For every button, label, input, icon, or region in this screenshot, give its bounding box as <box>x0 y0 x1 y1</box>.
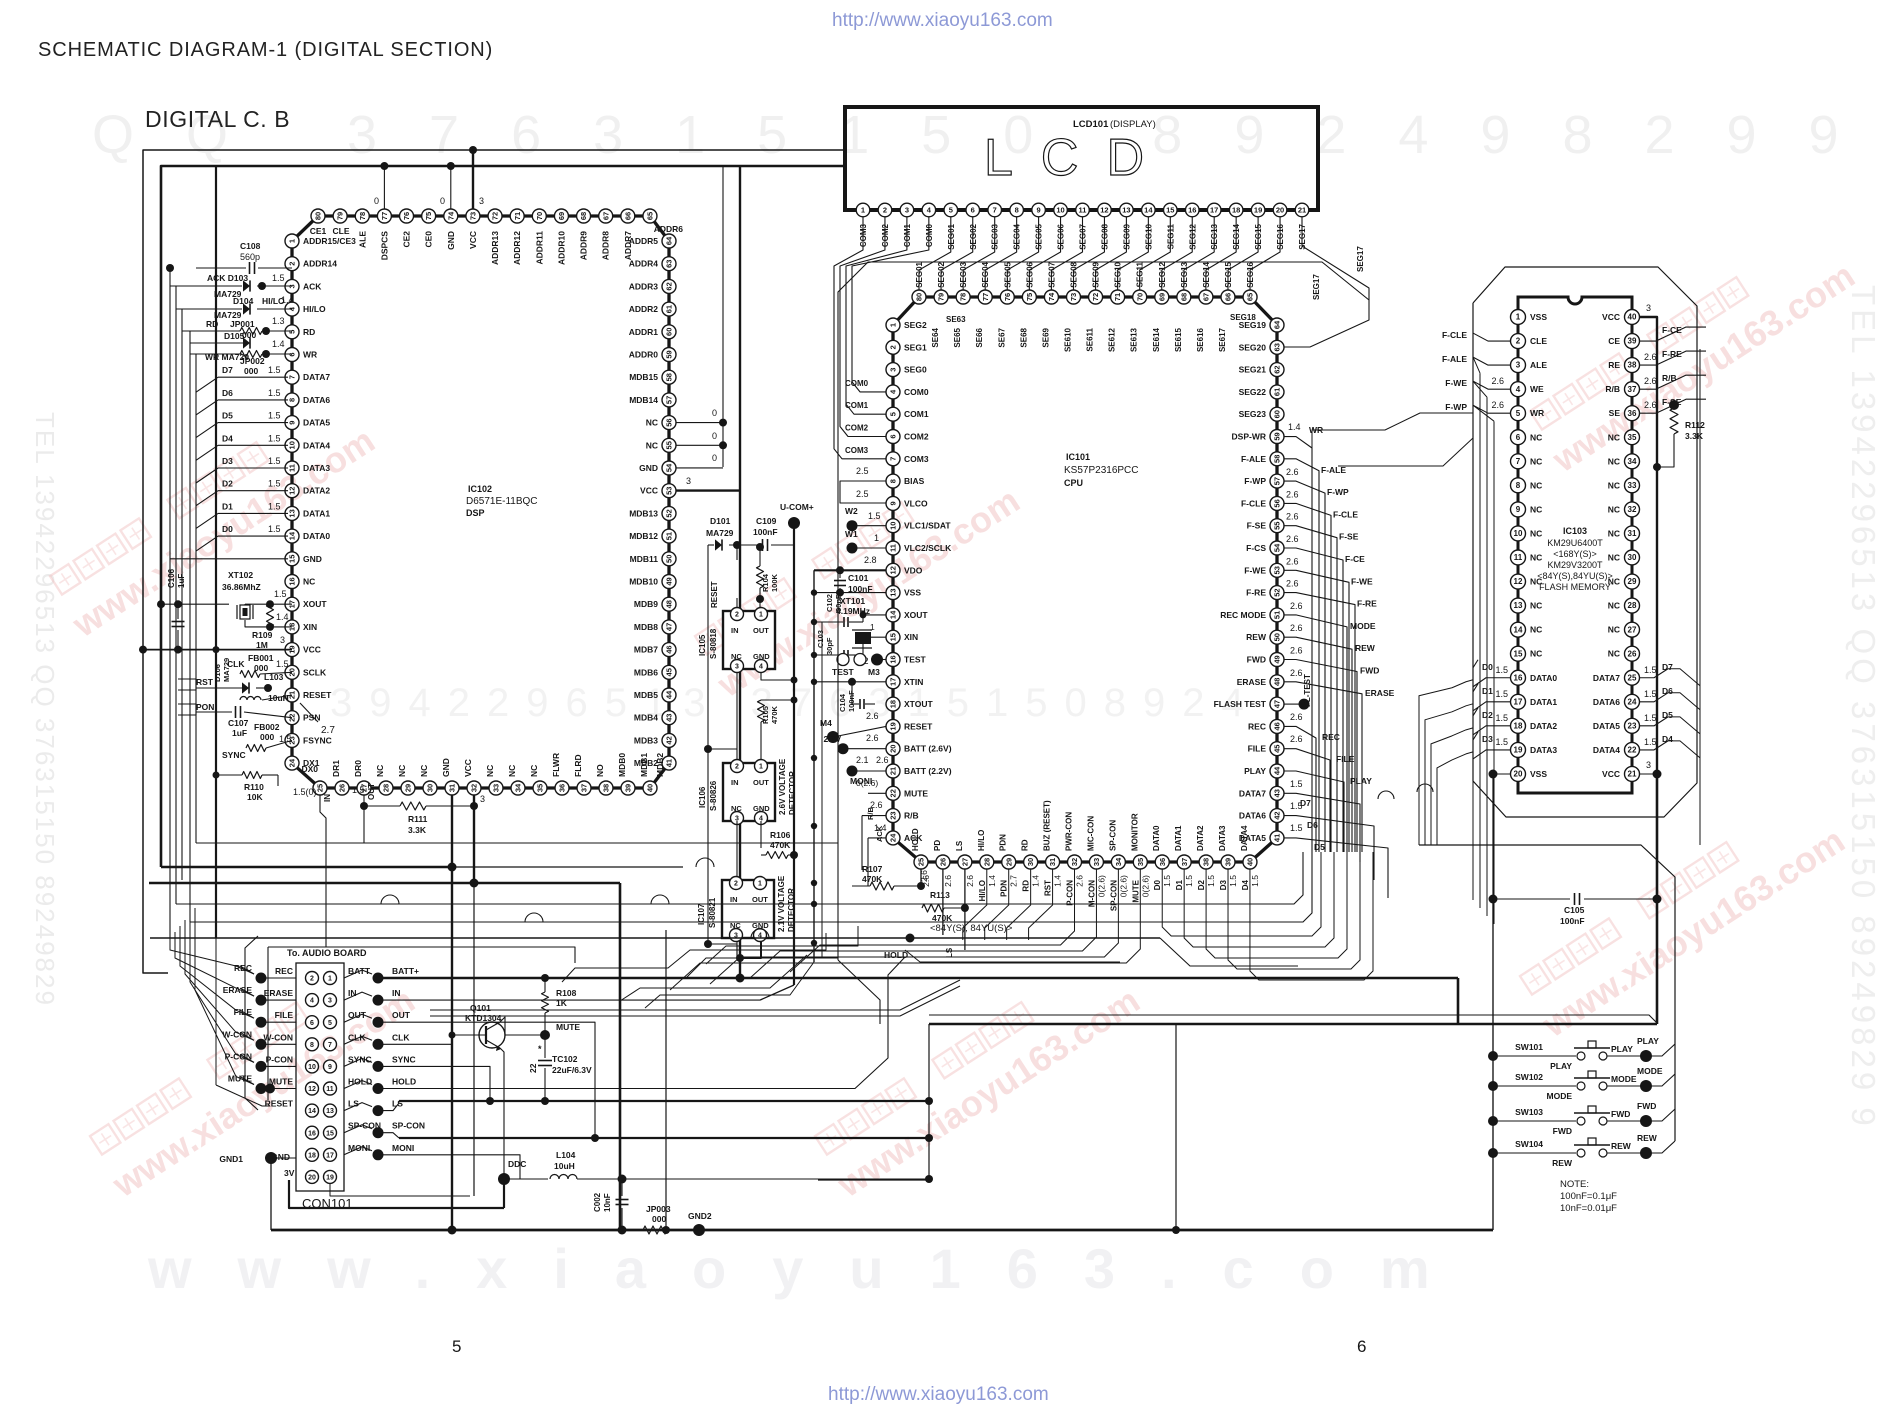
svg-text:TEST: TEST <box>904 655 927 665</box>
capacitor C101 <box>834 570 873 600</box>
svg-text:SE67: SE67 <box>997 327 1006 347</box>
svg-text:30: 30 <box>1628 553 1637 562</box>
svg-text:80: 80 <box>314 212 323 220</box>
svg-text:MDB6: MDB6 <box>634 667 658 677</box>
svg-text:46: 46 <box>665 645 674 653</box>
svg-text:1.5: 1.5 <box>1162 875 1172 887</box>
svg-text:SEG12: SEG12 <box>1158 261 1167 287</box>
svg-text:MDB3: MDB3 <box>634 735 658 745</box>
svg-text:20: 20 <box>1514 770 1523 779</box>
svg-text:2.6V VOLTAGE: 2.6V VOLTAGE <box>778 758 787 815</box>
svg-text:DR0: DR0 <box>353 760 363 777</box>
wire MUTE thick rail <box>399 1100 929 1102</box>
svg-text:16: 16 <box>308 1130 316 1137</box>
watermark gray vertical text left edge <box>30 412 60 1007</box>
svg-text:24: 24 <box>889 833 898 842</box>
label SYNC <box>222 750 246 760</box>
capacitor C108 <box>196 241 292 274</box>
svg-text:25: 25 <box>316 784 325 792</box>
svg-text:PLAY: PLAY <box>1637 1036 1659 1046</box>
svg-text:SEG2: SEG2 <box>904 320 927 330</box>
svg-text:11: 11 <box>326 1086 334 1093</box>
svg-text:72: 72 <box>1091 293 1100 301</box>
svg-text:BATT+: BATT+ <box>392 966 419 976</box>
wire left board thick vertical <box>215 167 217 938</box>
svg-text:C107: C107 <box>228 718 249 728</box>
svg-text:SEG16: SEG16 <box>1246 261 1255 287</box>
svg-text:2.8: 2.8 <box>864 555 877 565</box>
node junctions on ground rail <box>448 1226 1181 1235</box>
label LS rotated <box>945 947 954 958</box>
svg-text:68: 68 <box>579 212 588 220</box>
svg-text:74: 74 <box>446 211 455 220</box>
svg-text:F-WP: F-WP <box>1244 476 1266 486</box>
wire DATA6 net <box>1284 801 1374 880</box>
svg-text:2.6: 2.6 <box>876 755 889 765</box>
svg-text:D4: D4 <box>222 433 233 443</box>
svg-text:WE: WE <box>1530 384 1544 394</box>
wire vertical x1176 <box>1175 1024 1177 1230</box>
svg-text:32: 32 <box>1628 505 1637 514</box>
ferrite bead FB002 <box>246 722 292 752</box>
svg-text:55: 55 <box>665 441 674 449</box>
node junction R107 out <box>917 882 925 890</box>
wire F-ALE horizontal to IC103 <box>1338 438 1473 466</box>
svg-text:48: 48 <box>665 600 674 608</box>
svg-text:REC: REC <box>1322 732 1340 742</box>
svg-text:ADDR0: ADDR0 <box>629 350 659 360</box>
IC103 part label block <box>1537 526 1613 592</box>
svg-text:5: 5 <box>889 412 898 416</box>
IC102 pins 1-24 left <box>285 234 299 770</box>
svg-text:28: 28 <box>382 784 391 792</box>
IC101 bottom pin value labels <box>921 875 1260 911</box>
resistor R110 <box>216 772 278 803</box>
svg-text:3: 3 <box>686 476 691 486</box>
svg-text:20: 20 <box>308 1175 316 1182</box>
svg-text:ADDR14: ADDR14 <box>303 259 337 269</box>
svg-text:NC: NC <box>507 765 517 777</box>
svg-text:62: 62 <box>1273 365 1282 373</box>
svg-text:37: 37 <box>1180 858 1189 866</box>
wire VCC thick route to bottom <box>929 774 1657 1024</box>
svg-text:MDB11: MDB11 <box>630 554 659 564</box>
svg-text:1.5: 1.5 <box>1228 875 1238 887</box>
svg-text:33: 33 <box>1628 481 1637 490</box>
svg-text:17: 17 <box>1514 697 1523 706</box>
svg-text:1.5: 1.5 <box>268 411 281 421</box>
svg-text:www.xiaoyu163.com: www.xiaoyu163.com <box>147 1237 1476 1300</box>
svg-text:17: 17 <box>1210 206 1218 215</box>
board label DIGITAL C. B <box>145 106 290 132</box>
wire xtal ground return vertical <box>821 622 823 958</box>
svg-text:SEG02: SEG02 <box>937 261 946 287</box>
node W2 test point <box>845 506 886 531</box>
svg-text:61: 61 <box>1273 388 1282 396</box>
svg-text:KS57P2316PCC: KS57P2316PCC <box>1064 465 1139 476</box>
svg-text:CLE: CLE <box>1530 336 1547 346</box>
svg-text:100nF: 100nF <box>753 527 778 537</box>
node junction JP001 out <box>262 327 270 335</box>
svg-text:000: 000 <box>244 366 258 376</box>
svg-text:43: 43 <box>665 714 674 722</box>
crystal XT101 <box>836 596 886 655</box>
svg-text:0(2.6): 0(2.6) <box>1096 875 1106 897</box>
svg-text:http://www.xiaoyu163.com: http://www.xiaoyu163.com <box>828 1384 1049 1404</box>
svg-text:SEG18: SEG18 <box>1230 313 1256 322</box>
svg-text:PLAY: PLAY <box>1550 1061 1572 1071</box>
svg-text:NC: NC <box>1530 504 1542 514</box>
svg-text:DATA3: DATA3 <box>1530 745 1557 755</box>
wire flash feed risers to IC103 left <box>1473 333 1494 924</box>
svg-text:38: 38 <box>1628 361 1637 370</box>
node junction R106 <box>790 851 798 859</box>
svg-text:2.6V: 2.6V <box>824 734 842 744</box>
svg-text:FWD: FWD <box>1637 1101 1656 1111</box>
svg-text:1.4: 1.4 <box>276 612 289 622</box>
svg-text:16: 16 <box>1514 673 1523 682</box>
svg-text:76: 76 <box>402 212 411 220</box>
svg-text:F-SE: F-SE <box>1339 532 1359 542</box>
node junction L103 <box>264 684 272 692</box>
svg-text:GND2: GND2 <box>688 1211 712 1221</box>
svg-text:25: 25 <box>1628 673 1637 682</box>
svg-text:VCC: VCC <box>463 759 473 777</box>
svg-text:1: 1 <box>1516 313 1521 322</box>
node junction pin73 <box>469 146 477 154</box>
watermark bottom blue url <box>828 1384 1049 1404</box>
svg-text:LS: LS <box>955 840 964 851</box>
svg-text:51: 51 <box>665 532 674 540</box>
svg-text:2: 2 <box>1516 337 1521 346</box>
svg-text:MUTE: MUTE <box>1131 879 1140 902</box>
svg-text:F-WP: F-WP <box>1327 487 1349 497</box>
svg-text:17: 17 <box>889 678 898 686</box>
svg-text:2.6: 2.6 <box>1290 623 1303 633</box>
svg-text:F-WP: F-WP <box>1445 402 1467 412</box>
svg-text:D5: D5 <box>1314 842 1325 852</box>
node DDC <box>498 1159 526 1185</box>
node junction D101 out <box>733 541 741 549</box>
svg-text:35: 35 <box>1628 433 1637 442</box>
capacitor C103 30pF <box>814 630 863 660</box>
svg-text:F-WE: F-WE <box>1244 565 1266 575</box>
svg-text:3.3K: 3.3K <box>408 825 427 835</box>
svg-text:0(2.6): 0(2.6) <box>1140 875 1150 897</box>
svg-text:DETECTOR: DETECTOR <box>788 771 797 815</box>
svg-text:IC106: IC106 <box>698 786 707 808</box>
node junction R111-vcc <box>470 802 478 810</box>
svg-text:34: 34 <box>1114 857 1123 866</box>
svg-text:2: 2 <box>734 881 738 888</box>
wire flash control nets F-ALE..F-RE <box>1284 459 1377 852</box>
svg-text:C109: C109 <box>756 516 777 526</box>
wire board octagon outline around IC103 <box>1473 267 1697 817</box>
svg-text:SEG22: SEG22 <box>1239 387 1267 397</box>
svg-text:0(2.6): 0(2.6) <box>1118 875 1128 897</box>
svg-text:SEG04: SEG04 <box>981 261 990 287</box>
IC101 top inner seg labels <box>931 313 1256 352</box>
svg-text:SEG20: SEG20 <box>1239 342 1267 352</box>
svg-text:14: 14 <box>889 610 898 619</box>
CON101 pins <box>306 972 337 1184</box>
svg-text:21: 21 <box>1628 770 1637 779</box>
resistor R105 <box>758 700 780 760</box>
svg-text:1.5: 1.5 <box>279 734 292 744</box>
svg-text:33: 33 <box>492 784 501 792</box>
wire IC102 pin54 GND stub <box>676 453 723 468</box>
svg-text:DATA2: DATA2 <box>1530 721 1557 731</box>
resistor R112 <box>1657 408 1705 467</box>
svg-text:RESET: RESET <box>710 581 719 608</box>
svg-text:MDB0: MDB0 <box>617 753 627 777</box>
svg-text:F-RE: F-RE <box>1246 588 1266 598</box>
svg-text:F-WE: F-WE <box>1445 378 1467 388</box>
svg-text:1.3: 1.3 <box>272 316 285 326</box>
svg-text:SW103: SW103 <box>1515 1107 1543 1117</box>
svg-text:DATA0: DATA0 <box>303 531 330 541</box>
svg-text:DATA2: DATA2 <box>303 486 330 496</box>
svg-text:13: 13 <box>288 509 297 517</box>
wire BATT+ thick rail <box>378 977 1458 980</box>
svg-text:71: 71 <box>513 212 522 220</box>
transistor Q101 <box>452 1003 505 1051</box>
svg-text:RESET: RESET <box>303 690 332 700</box>
svg-text:70: 70 <box>1135 293 1144 301</box>
svg-text:5: 5 <box>949 206 953 215</box>
wire bottom left corner drop <box>818 1024 929 1180</box>
svg-text:27: 27 <box>960 858 969 866</box>
diode D104 <box>214 295 294 320</box>
svg-text:6: 6 <box>310 1020 314 1027</box>
svg-text:OUT: OUT <box>392 1010 411 1020</box>
svg-text:ERASE: ERASE <box>1365 688 1395 698</box>
svg-text:7: 7 <box>993 206 997 215</box>
svg-text:000: 000 <box>652 1214 666 1224</box>
svg-text:78: 78 <box>959 293 968 301</box>
wire IC103 VSS pin20 tie <box>1489 770 1511 779</box>
svg-text:1: 1 <box>328 976 332 983</box>
svg-text:2: 2 <box>735 612 739 619</box>
svg-text:67: 67 <box>1202 293 1211 301</box>
node junction OUT-mute rail <box>591 1134 599 1142</box>
svg-text:R/B: R/B <box>866 807 875 821</box>
IC102 bottom pin labels <box>301 753 665 777</box>
svg-text:1.5: 1.5 <box>268 501 281 511</box>
wire D101 feed vertical <box>708 545 737 944</box>
svg-text:IC103: IC103 <box>1563 526 1587 536</box>
svg-text:REC: REC <box>1248 721 1266 731</box>
wire fan LCD segs to IC101 <box>919 217 1280 290</box>
svg-text:VCC: VCC <box>468 231 478 249</box>
svg-text:R113: R113 <box>930 890 950 900</box>
svg-text:COM0: COM0 <box>904 387 929 397</box>
svg-text:70: 70 <box>535 212 544 220</box>
svg-text:SE: SE <box>1609 408 1621 418</box>
svg-text:GND: GND <box>639 463 658 473</box>
switch SW102 MODE <box>1488 1066 1675 1101</box>
svg-text:FSYNC: FSYNC <box>303 735 332 745</box>
node junction C105 ends <box>1489 895 1662 904</box>
watermark gray digits row top <box>92 105 1890 165</box>
svg-text:12: 12 <box>1100 206 1108 215</box>
svg-text:W2: W2 <box>845 506 858 516</box>
svg-text:NC: NC <box>529 765 539 777</box>
svg-text:14: 14 <box>288 531 297 540</box>
svg-text:75: 75 <box>1025 293 1034 301</box>
svg-text:PDN: PDN <box>1000 880 1009 897</box>
svg-text:1.5: 1.5 <box>1206 875 1216 887</box>
node junction VCC pin21 <box>1640 760 1662 779</box>
svg-text:ADDR1: ADDR1 <box>629 327 659 337</box>
watermark gray digits row middle <box>330 681 1261 725</box>
svg-text:4: 4 <box>310 998 314 1005</box>
svg-text:12: 12 <box>889 566 898 574</box>
svg-text:100nF=0.1μF: 100nF=0.1μF <box>1560 1191 1617 1202</box>
svg-text:D4: D4 <box>1662 734 1673 744</box>
svg-text:GND: GND <box>753 652 770 661</box>
diode D105 <box>190 331 250 354</box>
svg-text:1.5: 1.5 <box>1495 665 1508 675</box>
wire SEG17 from LCD pin21 <box>1291 217 1369 347</box>
svg-text:LCD: LCD <box>984 129 1172 187</box>
IC102 pins 64-41 right <box>662 234 676 770</box>
svg-text:40: 40 <box>1246 858 1255 866</box>
resistor R107 <box>852 864 921 890</box>
svg-text:13: 13 <box>889 588 898 596</box>
svg-text:1: 1 <box>874 533 879 543</box>
svg-text:6: 6 <box>889 434 898 438</box>
svg-text:NC: NC <box>1530 480 1542 490</box>
svg-text:1.5: 1.5 <box>1495 713 1508 723</box>
svg-text:16: 16 <box>889 655 898 663</box>
svg-text:NC: NC <box>1608 649 1620 659</box>
svg-text:ERASE: ERASE <box>1237 677 1267 687</box>
svg-text:SE617: SE617 <box>1218 327 1227 352</box>
IC101 pins 64-41 right <box>1270 318 1284 845</box>
svg-text:SE68: SE68 <box>1019 327 1028 347</box>
wire right rail vertical x1700 <box>1699 349 1701 845</box>
svg-text:NC: NC <box>1608 456 1620 466</box>
wire U-COM+ vertical thick <box>793 523 795 985</box>
svg-text:DATA0: DATA0 <box>1152 825 1161 851</box>
svg-text:SEG08: SEG08 <box>1069 261 1078 287</box>
svg-text:SP-CON: SP-CON <box>1109 880 1118 911</box>
svg-text:6: 6 <box>971 206 975 215</box>
svg-text:DATA3: DATA3 <box>1218 825 1227 851</box>
svg-text:COM0: COM0 <box>845 379 869 388</box>
svg-text:RESET: RESET <box>904 721 933 731</box>
wire D4-D7 exits to right rail <box>1668 669 1700 845</box>
svg-text:1.4: 1.4 <box>1053 875 1063 887</box>
svg-text:52: 52 <box>665 509 674 517</box>
svg-text:73: 73 <box>1069 293 1078 301</box>
wire 3V feed thick <box>289 1179 504 1208</box>
IC103 right pin labels <box>1593 312 1620 779</box>
svg-text:49: 49 <box>665 577 674 585</box>
svg-text:SEG13: SEG13 <box>1180 261 1189 287</box>
svg-text:DATA5: DATA5 <box>303 418 330 428</box>
svg-text:NOTE:: NOTE: <box>1560 1179 1589 1190</box>
svg-text:DATA1: DATA1 <box>1530 697 1557 707</box>
svg-text:1.5: 1.5 <box>1644 713 1657 723</box>
svg-text:37: 37 <box>1628 385 1637 394</box>
svg-text:32: 32 <box>470 784 479 792</box>
svg-text:VSS: VSS <box>1530 769 1547 779</box>
svg-text:1.5: 1.5 <box>1184 875 1194 887</box>
svg-text:1: 1 <box>889 323 898 327</box>
svg-text:IN: IN <box>730 895 738 904</box>
svg-text:SE614: SE614 <box>1152 327 1161 352</box>
svg-text:RE: RE <box>1608 360 1620 370</box>
svg-text:2: 2 <box>288 262 297 266</box>
svg-text:GND: GND <box>753 804 770 813</box>
svg-text:DATA2: DATA2 <box>1196 825 1205 851</box>
svg-text:SEG14: SEG14 <box>1202 261 1211 287</box>
svg-text:78: 78 <box>358 212 367 220</box>
svg-text:R112: R112 <box>1685 420 1705 430</box>
svg-text:SE64: SE64 <box>931 327 940 347</box>
svg-text:C103: C103 <box>816 630 825 648</box>
wire NC tie down to IC105 <box>736 598 738 608</box>
LCD101 display outline <box>845 107 1318 210</box>
wire REC net <box>1284 712 1340 852</box>
watermark gray vertical text right edge <box>1845 285 1882 1130</box>
svg-text:SEG11: SEG11 <box>1136 261 1145 287</box>
svg-text:2: 2 <box>310 976 314 983</box>
svg-text:000: 000 <box>260 732 274 742</box>
wire IC103 left control entries <box>1442 330 1510 413</box>
switch SW101 PLAY <box>1488 1036 1675 1071</box>
svg-text:XOUT: XOUT <box>303 599 327 609</box>
wire CLK net <box>378 1043 452 1045</box>
svg-text:9: 9 <box>889 501 898 505</box>
IC102 pins 80-65 top <box>311 209 657 223</box>
node BATT 2.2V junction <box>847 755 889 786</box>
svg-text:MDB1: MDB1 <box>639 753 649 777</box>
svg-text:100nF: 100nF <box>1560 916 1585 926</box>
svg-text:P-CON: P-CON <box>1066 880 1075 906</box>
wire octagon IC101 bottom-left diagonal <box>838 960 880 1024</box>
svg-text:3: 3 <box>480 794 485 804</box>
svg-text:26: 26 <box>338 784 347 792</box>
svg-text:To. AUDIO BOARD: To. AUDIO BOARD <box>287 948 367 958</box>
ferrite bead FB001 <box>227 653 292 678</box>
svg-text:65: 65 <box>1246 293 1255 301</box>
svg-text:30: 30 <box>1026 858 1035 866</box>
svg-text:60: 60 <box>1273 410 1282 418</box>
svg-text:F-RE: F-RE <box>1357 599 1377 609</box>
wire left bus vertical B <box>175 286 177 904</box>
wire IC102 pin53 VCC stub thick <box>676 166 740 978</box>
svg-text:MDB10: MDB10 <box>629 577 658 587</box>
svg-text:ALE: ALE <box>357 231 367 248</box>
label To. AUDIO BOARD <box>287 948 367 958</box>
wire left bus vertical E <box>195 354 197 843</box>
svg-text:MODE: MODE <box>1637 1066 1663 1076</box>
svg-text:13: 13 <box>326 1108 334 1115</box>
IC101 pins 1-24 left <box>886 318 900 845</box>
svg-text:51: 51 <box>1273 611 1282 619</box>
resistor R111 <box>364 802 473 835</box>
resistor R108 <box>542 978 577 1035</box>
svg-text:470K: 470K <box>770 705 779 724</box>
node junction Q101 base <box>449 1032 456 1039</box>
svg-text:31: 31 <box>1628 529 1637 538</box>
svg-text:SE69: SE69 <box>1041 327 1050 347</box>
svg-text:ACK: ACK <box>303 281 322 291</box>
svg-text:PDN: PDN <box>999 834 1008 851</box>
